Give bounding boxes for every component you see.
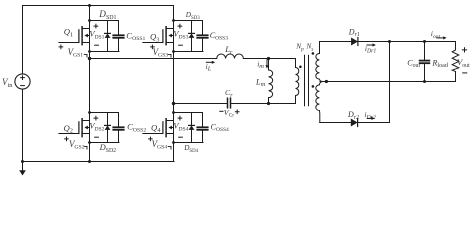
svg-text:COSS2: COSS2 xyxy=(127,122,146,134)
secondary winding top xyxy=(316,42,323,82)
diode D_SD3 xyxy=(191,21,193,34)
resistor R_load xyxy=(455,42,457,50)
node A xyxy=(88,57,91,60)
secondary top polarity dot xyxy=(312,52,315,55)
transformer core xyxy=(304,55,306,105)
label V_GS2 xyxy=(65,137,69,141)
wire L_r to node C xyxy=(243,58,295,60)
svg-text:Cout: Cout xyxy=(407,58,420,69)
svg-text:Q3: Q3 xyxy=(150,32,159,44)
svg-text:Np: Np xyxy=(295,43,304,53)
source V_in xyxy=(15,74,30,89)
capacitor C_OSS2 xyxy=(118,113,120,128)
label V_out xyxy=(462,48,466,52)
label V_DS4 xyxy=(178,116,182,120)
label V_GS1 xyxy=(59,45,63,49)
node B xyxy=(172,102,175,105)
svg-text:Cr: Cr xyxy=(225,88,233,99)
svg-text:VGS3: VGS3 xyxy=(153,47,169,59)
node top bus / Q1 drain xyxy=(88,4,91,7)
wire left bus lower xyxy=(22,89,24,161)
node C (L_m top) xyxy=(267,57,270,60)
label V_DS3 xyxy=(178,24,182,28)
svg-text:VDS1: VDS1 xyxy=(89,30,104,41)
label V_DS1 xyxy=(94,24,98,28)
svg-text:Dr2: Dr2 xyxy=(347,110,359,121)
svg-text:Vin: Vin xyxy=(2,77,13,89)
transistor Q4 xyxy=(165,119,167,137)
svg-text:VDS2: VDS2 xyxy=(89,122,104,133)
wire gate Q4 xyxy=(143,133,163,135)
label V_GS4 xyxy=(149,137,153,141)
capacitor C_r xyxy=(227,98,229,108)
label V_GS3 xyxy=(151,45,155,49)
wire cell rails Q3 xyxy=(174,20,203,22)
wire cell rails Q2 xyxy=(90,112,119,114)
primary polarity dot xyxy=(299,66,302,69)
capacitor C_OSS4 xyxy=(202,113,204,128)
svg-text:COSS1: COSS1 xyxy=(126,30,145,42)
label V_Cr xyxy=(220,110,223,112)
wire bottom bus xyxy=(23,161,175,163)
transformer primary winding N_p xyxy=(296,59,299,104)
svg-text:Q1: Q1 xyxy=(64,27,73,39)
diode D_SD4 xyxy=(191,113,193,126)
svg-text:VGS4: VGS4 xyxy=(152,139,168,151)
secondary winding bottom xyxy=(316,82,323,123)
secondary bottom polarity dot xyxy=(312,85,315,88)
wire cell rails Q1 xyxy=(90,20,119,22)
wire gate Q2 xyxy=(59,133,79,135)
svg-text:iDr2: iDr2 xyxy=(364,110,376,121)
wire node B to C_r xyxy=(174,103,228,105)
svg-text:Vout: Vout xyxy=(457,57,470,69)
diode D_SD2 xyxy=(107,113,109,126)
wire secondary bottom to D_r2 riser xyxy=(320,122,390,124)
node L_m bottom xyxy=(267,102,270,105)
label V_DS2 xyxy=(94,116,98,120)
svg-text:im: im xyxy=(257,59,264,70)
svg-text:Q2: Q2 xyxy=(64,123,73,135)
wire gate Q3 xyxy=(143,42,163,44)
node bottom bus / Q2 source xyxy=(88,160,91,163)
svg-text:VGS1: VGS1 xyxy=(68,47,84,59)
svg-text:VGS2: VGS2 xyxy=(69,139,85,151)
transistor Q3 xyxy=(165,27,167,45)
ground arrow xyxy=(21,160,24,163)
wire C_r to primary bottom xyxy=(231,103,296,105)
svg-text:Rload: Rload xyxy=(431,58,448,69)
svg-text:Lm: Lm xyxy=(255,77,266,88)
label i_L xyxy=(206,61,213,63)
transistor Q1 xyxy=(81,27,83,45)
svg-text:COSS4: COSS4 xyxy=(211,122,230,133)
svg-text:VDS3: VDS3 xyxy=(173,30,188,41)
wire cell rails Q4 xyxy=(174,112,203,114)
node center tap xyxy=(325,80,328,83)
wire D_r2 riser xyxy=(389,42,391,123)
wire Q1/Q2 leg vertical xyxy=(89,6,91,162)
wire left bus upper xyxy=(22,6,24,74)
diode D_r2 xyxy=(351,119,358,127)
svg-text:DSD4: DSD4 xyxy=(183,144,198,154)
svg-text:DSD2: DSD2 xyxy=(99,142,117,154)
svg-text:COSS3: COSS3 xyxy=(210,31,229,42)
wire secondary top to output xyxy=(320,41,456,43)
inductor L_m xyxy=(268,59,270,71)
diode D_SD1 xyxy=(107,21,109,34)
svg-text:VCr: VCr xyxy=(224,108,234,119)
svg-text:Ns: Ns xyxy=(306,43,314,53)
wire top bus xyxy=(23,5,174,7)
wire gate Q1 xyxy=(59,42,79,44)
svg-text:Dr1: Dr1 xyxy=(348,27,360,38)
capacitor C_OSS1 xyxy=(118,21,120,36)
svg-text:DSD3: DSD3 xyxy=(185,11,200,21)
transistor Q2 xyxy=(81,119,83,137)
capacitor C_OSS3 xyxy=(202,21,204,36)
diode D_r1 xyxy=(351,38,358,46)
capacitor C_out xyxy=(423,40,426,43)
svg-text:DSD1: DSD1 xyxy=(98,9,116,21)
wire Q3/Q4 leg vertical xyxy=(173,6,175,162)
svg-text:Q4: Q4 xyxy=(151,122,161,134)
svg-text:iL: iL xyxy=(206,62,212,73)
svg-text:VDS4: VDS4 xyxy=(173,122,188,133)
label i_Dr1 xyxy=(367,44,374,46)
wire center tap to load xyxy=(320,81,456,83)
inductor L_r xyxy=(217,54,244,58)
wire node A to L_r xyxy=(90,58,217,60)
